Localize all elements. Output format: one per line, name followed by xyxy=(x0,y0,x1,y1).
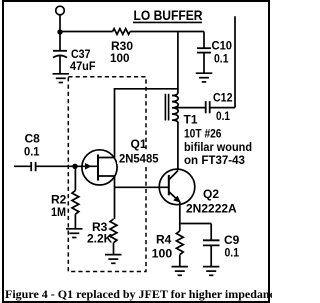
capacitor C10 xyxy=(197,39,232,74)
wire emitter junction to C9 xyxy=(180,223,211,225)
capacitor C8 xyxy=(14,131,75,171)
wire junction to R30 xyxy=(60,31,113,33)
wire R30 to C10 corner xyxy=(130,31,204,33)
gate arrow xyxy=(85,163,92,170)
svg-text:Q2: Q2 xyxy=(203,187,219,201)
ground C9 xyxy=(203,267,220,276)
node junction dot gate xyxy=(72,164,77,169)
emitter lead xyxy=(169,192,180,202)
svg-text:R4: R4 xyxy=(156,233,172,247)
ground R2 xyxy=(66,229,83,238)
collector lead xyxy=(169,171,178,180)
wire emitter down xyxy=(179,202,181,224)
svg-text:0.1: 0.1 xyxy=(225,246,240,260)
wire T1 to Q2 collector xyxy=(177,122,179,170)
svg-text:47uF: 47uF xyxy=(70,59,96,73)
svg-text:C10: C10 xyxy=(212,39,233,53)
svg-text:Figure 4 - Q1 replaced by JFET: Figure 4 - Q1 replaced by JFET for highe… xyxy=(5,287,272,301)
gate wire xyxy=(75,165,98,167)
svg-text:2N2222A: 2N2222A xyxy=(186,201,237,215)
svg-text:100: 100 xyxy=(110,51,130,65)
svg-text:C8: C8 xyxy=(25,131,41,145)
op JFET Q1 xyxy=(75,137,160,185)
resistor R3 xyxy=(87,219,117,254)
wire drain up xyxy=(114,88,116,158)
svg-text:0.1: 0.1 xyxy=(214,52,229,66)
ground R3 xyxy=(105,255,122,264)
svg-text:bifilar wound: bifilar wound xyxy=(184,140,252,154)
capacitor C9 xyxy=(203,224,240,267)
ground C37 xyxy=(53,74,70,83)
svg-text:100: 100 xyxy=(152,247,173,261)
wire drain rail xyxy=(115,88,178,90)
source lead xyxy=(98,175,115,177)
wire terminal to junction xyxy=(59,15,61,32)
wire output vertical xyxy=(234,16,236,107)
svg-text:on FT37-43: on FT37-43 xyxy=(184,153,245,167)
svg-text:2.2K: 2.2K xyxy=(87,232,113,246)
emitter arrow xyxy=(173,196,181,203)
svg-text:0.1: 0.1 xyxy=(216,109,230,123)
wire corner to C10 xyxy=(203,32,205,48)
transistor Q2 xyxy=(159,169,237,215)
capacitor C12 xyxy=(175,90,235,123)
channel bar xyxy=(97,154,99,180)
base bar xyxy=(168,175,170,195)
svg-text:1M: 1M xyxy=(51,205,66,219)
svg-text:Q1: Q1 xyxy=(131,137,147,151)
resistor R2 xyxy=(51,166,79,229)
resistor R30 xyxy=(113,29,131,35)
wire emitter junction down to R4 xyxy=(179,224,181,231)
transformer T1 winding xyxy=(172,92,252,167)
terminal circle (LO input) xyxy=(56,6,65,15)
ground C10 xyxy=(196,73,213,82)
wire source to Q2 base xyxy=(115,186,169,188)
node junction dot top-left xyxy=(57,29,62,34)
ground R4 xyxy=(172,267,189,276)
dashed box around Q1 xyxy=(68,77,146,272)
wire supply rail down to T1 xyxy=(177,32,179,93)
resistor R4 xyxy=(152,231,184,266)
title LO BUFFER xyxy=(133,7,203,23)
svg-text:10T #26: 10T #26 xyxy=(184,127,222,141)
svg-text:2N5485: 2N5485 xyxy=(119,152,159,166)
drain lead xyxy=(98,157,115,159)
svg-text:LO BUFFER: LO BUFFER xyxy=(134,7,203,23)
svg-text:C12: C12 xyxy=(213,90,233,104)
svg-text:0.1: 0.1 xyxy=(24,145,40,159)
wire source down xyxy=(114,176,116,219)
capacitor C37 xyxy=(53,32,96,74)
transformer T1 core xyxy=(165,94,168,121)
svg-text:T1: T1 xyxy=(184,113,198,127)
